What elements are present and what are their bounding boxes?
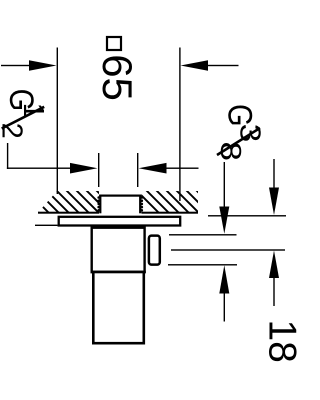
ref line C knob axis (171, 249, 285, 250)
G38 shaft lower (224, 294, 225, 322)
flange plate (59, 217, 181, 226)
G12 arrow left head (70, 163, 98, 174)
dim65 arrow right tail (208, 65, 239, 66)
body upper section (92, 228, 145, 272)
G12 arrow right head (139, 163, 167, 174)
svg-text:18: 18 (261, 320, 300, 363)
svg-text:65: 65 (94, 54, 141, 101)
dim65 ext line right (179, 48, 180, 202)
flange left stub line (35, 225, 58, 226)
dim65 square symbol (107, 37, 121, 50)
wall hatching left (16, 190, 120, 214)
G12 leader vertical (7, 143, 8, 169)
G12 ext line left (98, 153, 99, 187)
dim18 shaft lower (273, 278, 274, 306)
ref line B knob top (169, 234, 237, 235)
G38 arrow up head (219, 265, 229, 293)
G38 label slash (217, 128, 260, 155)
G12 ext line right (137, 153, 138, 187)
wall line right (142, 212, 199, 214)
G38 shaft upper (224, 162, 225, 207)
G38 arrow down head (219, 207, 229, 234)
body lower section (93, 272, 144, 343)
svg-text:8: 8 (214, 142, 246, 162)
dim65 arrow right head (181, 60, 209, 71)
svg-text:2: 2 (0, 123, 27, 139)
dim65 ext line left (57, 48, 58, 195)
svg-text:3: 3 (234, 124, 266, 143)
ref line A wall level (208, 215, 286, 216)
G12 label slash (2, 107, 45, 129)
side outlet knob (149, 236, 160, 265)
wall line left (38, 212, 99, 214)
dim18 shaft upper (273, 159, 274, 188)
dim18 arrow down head (269, 188, 279, 216)
dim65 arrow left tail (1, 65, 31, 66)
dim65 arrow left head (29, 60, 57, 71)
ref line D knob bottom (168, 264, 237, 265)
threaded nub (97, 195, 143, 216)
dim18 arrow up head (269, 251, 279, 279)
G12 leader horizontal (7, 168, 72, 169)
wall hatching right (136, 190, 220, 214)
svg-text:1: 1 (17, 103, 49, 119)
body divider line (91, 271, 146, 274)
G12 arrow right tail (167, 168, 199, 169)
